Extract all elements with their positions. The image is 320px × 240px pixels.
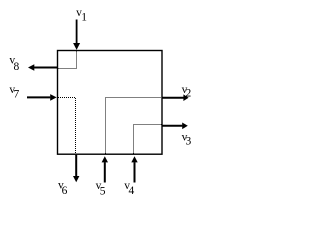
svg-text:8: 8 — [14, 61, 20, 73]
svg-text:3: 3 — [186, 135, 192, 147]
arrow v8 (output, left upper) — [28, 64, 58, 71]
svg-text:6: 6 — [62, 185, 68, 197]
dotted path v4 input to v3 output — [134, 125, 162, 154]
arrow v1 (input, top) — [73, 20, 80, 50]
arrow v2 (output, right upper) — [163, 94, 189, 101]
dotted path v1 input to v8 output — [58, 52, 76, 69]
arrow v4 (input, bottom right) — [131, 156, 137, 182]
label v2 — [182, 84, 192, 100]
svg-text:1: 1 — [81, 12, 87, 24]
svg-text:4: 4 — [129, 185, 135, 197]
svg-text:2: 2 — [186, 88, 192, 100]
arrow v6 (output, bottom left) — [73, 155, 79, 182]
dotted path v7 input to v6 output — [58, 98, 75, 154]
label v3 — [182, 131, 192, 147]
arrow v5 (input, bottom middle) — [102, 156, 108, 182]
box (system block) — [58, 51, 163, 155]
dotted path v5 input to v2 output — [106, 98, 162, 154]
arrow v3 (output, right lower) — [163, 123, 188, 130]
label v4 — [124, 180, 134, 197]
svg-text:5: 5 — [100, 186, 106, 198]
label v8 — [9, 55, 19, 73]
label v5 — [96, 180, 106, 198]
svg-text:7: 7 — [14, 89, 20, 101]
arrow v7 (input, left lower) — [27, 94, 57, 101]
label v6 — [58, 180, 68, 197]
label v7 — [9, 84, 19, 100]
label v1 — [76, 7, 87, 24]
